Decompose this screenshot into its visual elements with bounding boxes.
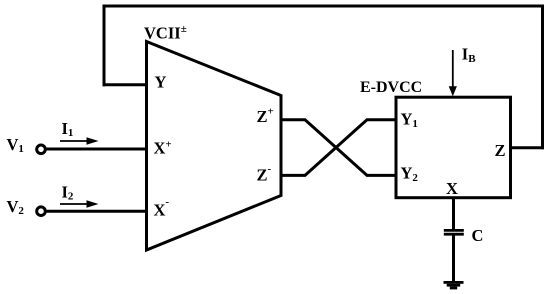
svg-text:E-DVCC: E-DVCC [360, 79, 422, 96]
wire: VCII Z+ output to E-DVCC Y2 input (cross connection) [281, 120, 398, 176]
capacitor C: top plate [444, 229, 464, 232]
svg-text:Z+: Z+ [257, 106, 274, 127]
wire: VCII Z- output to E-DVCC Y1 input (cross connection) [281, 120, 398, 176]
wire: feedback top horizontal segment [103, 5, 545, 8]
wire: Z-output stub from E-DVCC Z terminal to feedback [509, 146, 544, 149]
block U2: E-DVCC rectangle body [396, 97, 511, 198]
svg-text:I2: I2 [62, 182, 74, 202]
svg-text:V1: V1 [7, 135, 24, 155]
svg-text:X+: X+ [154, 139, 172, 158]
wire: from E-DVCC X terminal down to capacitor [452, 198, 455, 230]
terminal V1: input terminal circle [37, 145, 46, 154]
svg-text:Y1: Y1 [401, 110, 418, 131]
ground symbol (stepped bars) [444, 281, 464, 289]
svg-text:C: C [472, 226, 484, 245]
svg-text:Y2: Y2 [401, 164, 419, 185]
current arrow I1 shaft [60, 140, 88, 142]
current arrow I2 shaft [60, 203, 88, 205]
svg-text:X: X [446, 179, 458, 198]
svg-text:Z-: Z- [257, 163, 272, 185]
wire: Y-input stub from feedback to VCII Y terminal [103, 83, 148, 86]
current arrow IB head [449, 86, 457, 96]
current arrow I2 head [87, 200, 99, 207]
wire: feedback left vertical segment [103, 5, 106, 87]
current arrow IB shaft (bias current into E-DVCC top) [452, 50, 454, 88]
capacitor C: bottom plate [444, 233, 464, 236]
svg-text:Z: Z [495, 141, 506, 160]
op-amp U1: VCII trapezoid body [147, 42, 282, 251]
wire: from V1 terminal to VCII X+ terminal [46, 148, 148, 151]
current arrow I1 head [87, 137, 99, 144]
svg-text:V2: V2 [7, 197, 25, 217]
svg-text:IB: IB [462, 44, 476, 65]
terminal V2: input terminal circle [37, 207, 46, 216]
svg-text:I1: I1 [62, 119, 74, 139]
svg-text:Y: Y [155, 73, 167, 92]
wire: from capacitor down to ground [452, 236, 455, 282]
svg-text:X-: X- [154, 196, 170, 220]
wire: from V2 terminal to VCII X- terminal [46, 210, 148, 213]
wire: feedback right vertical segment [541, 5, 544, 150]
svg-text:VCII±: VCII± [144, 23, 187, 43]
